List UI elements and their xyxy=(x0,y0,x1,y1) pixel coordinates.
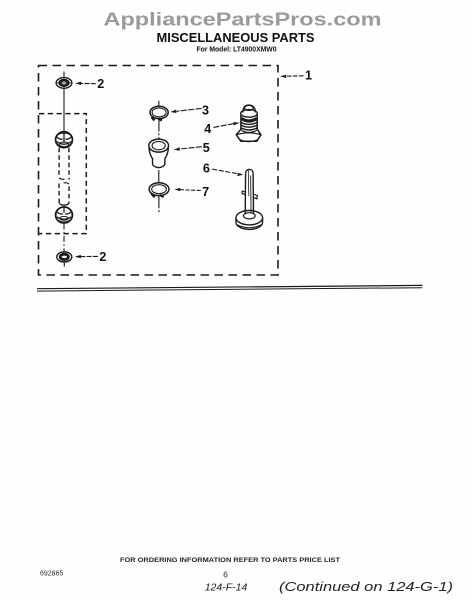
centerline to bottom washer (dash-dot) xyxy=(63,223,65,251)
arrow to label 2 (bottom) xyxy=(75,255,98,258)
svg-text:For Model: LT4900XMW0: For Model: LT4900XMW0 xyxy=(197,45,277,54)
svg-text:3: 3 xyxy=(202,104,209,118)
threaded plug 4 xyxy=(236,105,261,142)
svg-text:124-F-14: 124-F-14 xyxy=(205,582,248,594)
centerline middle column xyxy=(158,101,160,213)
svg-text:AppliancePartsPros.com: AppliancePartsPros.com xyxy=(104,9,382,30)
double horizontal rule xyxy=(37,285,423,288)
arrow to label 2 (top) xyxy=(75,82,96,85)
svg-text:(Continued on 124-G-1): (Continued on 124-G-1) xyxy=(279,579,453,594)
arrow to label 1 xyxy=(280,75,303,78)
arrow to label 6 xyxy=(212,169,243,176)
hose body (dashed sides with break) xyxy=(59,148,69,205)
bushing 5 xyxy=(149,139,169,168)
svg-text:4: 4 xyxy=(204,122,211,136)
washer 2 (top) xyxy=(56,78,72,89)
snap ring 3 xyxy=(150,106,168,120)
svg-text:6: 6 xyxy=(203,161,210,175)
snap ring 7 xyxy=(149,183,169,197)
svg-text:1: 1 xyxy=(305,69,312,83)
svg-text:6: 6 xyxy=(223,570,228,580)
arrow to label 4 xyxy=(214,122,240,127)
leveling leg 6 xyxy=(236,169,263,229)
svg-text:2: 2 xyxy=(97,77,104,91)
centerline left assembly top xyxy=(63,72,65,132)
washer 2 (bottom) xyxy=(57,252,72,262)
centerline below bottom washer xyxy=(63,262,65,266)
arrow to label 7 xyxy=(174,188,200,191)
inner dashed sub-box (left assembly) xyxy=(39,114,86,234)
outer dashed parts box xyxy=(39,66,279,276)
svg-text:7: 7 xyxy=(202,185,209,199)
hose coupling (bottom) xyxy=(56,207,73,223)
svg-text:5: 5 xyxy=(203,141,210,155)
svg-text:2: 2 xyxy=(99,250,106,264)
arrow to label 3 xyxy=(170,108,201,113)
svg-text:MISCELLANEOUS PARTS: MISCELLANEOUS PARTS xyxy=(157,31,315,45)
svg-text:692865: 692865 xyxy=(40,571,63,578)
svg-text:FOR ORDERING INFORMATION REFER: FOR ORDERING INFORMATION REFER TO PARTS … xyxy=(120,557,340,564)
arrow to label 5 xyxy=(174,147,202,151)
hose coupling (top) xyxy=(56,132,73,148)
